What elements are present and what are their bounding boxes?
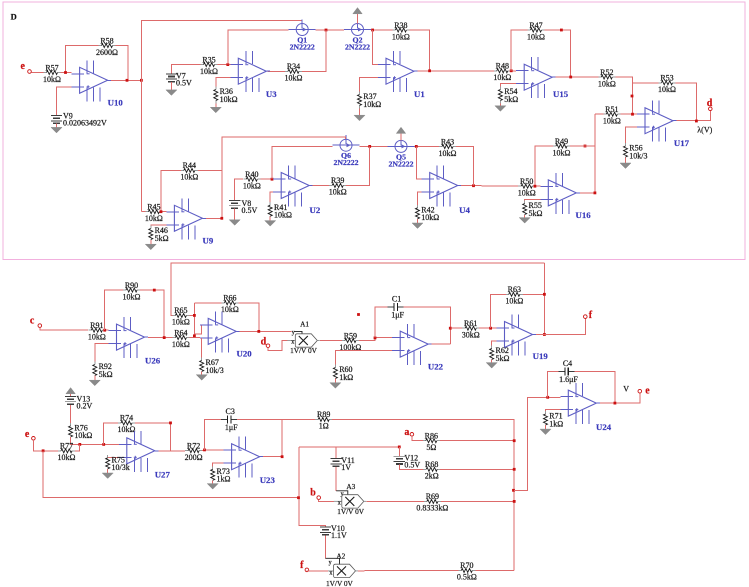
wire U20 output to A1 y-input [240, 330, 292, 332]
junction [631, 95, 634, 98]
resistor R61 [462, 319, 480, 340]
wire [189, 337, 200, 339]
resistor R69 [416, 492, 448, 513]
wire [359, 109, 361, 116]
junction [371, 29, 374, 32]
svg-text:10kΩ: 10kΩ [553, 148, 571, 157]
svg-text:1V/V 0V: 1V/V 0V [326, 579, 354, 587]
svg-text:R63: R63 [508, 285, 521, 294]
svg-text:C4: C4 [563, 359, 572, 368]
junction [594, 192, 597, 195]
junction [220, 217, 223, 220]
junction [78, 443, 81, 446]
svg-text:x: x [338, 501, 341, 507]
svg-text:10kΩ: 10kΩ [118, 425, 136, 434]
wire U4 output to R50 [461, 185, 519, 188]
wire Q6 to Q5 [360, 145, 388, 147]
op-amp U24 [560, 383, 611, 432]
svg-text:0.8333kΩ: 0.8333kΩ [416, 504, 448, 513]
svg-text:x: x [329, 570, 332, 576]
resistor R41 [268, 202, 292, 219]
svg-text:x: x [291, 340, 294, 346]
wire R89 line [282, 418, 315, 420]
svg-text:10kΩ: 10kΩ [200, 67, 218, 76]
svg-text:R58: R58 [100, 36, 113, 45]
capacitor C1 [388, 294, 405, 319]
ground [229, 220, 240, 226]
voltage source V7 [166, 72, 192, 88]
wire C4 feedback loop [548, 372, 559, 398]
wire top loop of lower section [171, 263, 544, 316]
svg-text:2N2222: 2N2222 [333, 158, 358, 167]
junction [695, 120, 698, 123]
resistor R46 [149, 226, 169, 243]
junction [103, 329, 106, 332]
voltage source V11 [331, 456, 355, 472]
multiplier A2 [326, 551, 358, 587]
svg-text:1.1V: 1.1V [331, 531, 347, 540]
svg-text:R39: R39 [331, 176, 344, 185]
svg-text:10kΩ: 10kΩ [172, 340, 190, 349]
resistor R67 [200, 358, 224, 375]
wire R54 to U15 +input [500, 84, 516, 87]
junction [489, 327, 492, 330]
resistor R77 [58, 442, 76, 463]
svg-text:1kΩ: 1kΩ [549, 419, 563, 428]
wire [33, 440, 58, 451]
wire [162, 211, 166, 213]
wire Q2 collector to VCC [357, 14, 359, 24]
svg-text:R68: R68 [425, 460, 438, 469]
junction [163, 336, 166, 339]
wire R63 feedback loop [491, 294, 506, 328]
wire [212, 480, 214, 483]
terminal d input [266, 344, 270, 348]
resistor R60 [333, 365, 353, 382]
svg-text:10kΩ: 10kΩ [74, 431, 92, 440]
junction [584, 145, 587, 148]
svg-text:U16: U16 [576, 210, 592, 220]
svg-text:a: a [404, 427, 409, 438]
wire Q1 to Q2 [316, 29, 344, 31]
wire [107, 469, 109, 473]
wire R43 to U4 output node [456, 147, 474, 186]
wire C1 feedback loop [375, 307, 388, 338]
terminal e input [28, 70, 32, 74]
junction [415, 145, 418, 148]
svg-text:R44: R44 [183, 161, 196, 170]
power arrow above Q2 [353, 8, 362, 14]
svg-text:10k/3: 10k/3 [206, 366, 224, 375]
ground [265, 221, 276, 227]
resistor R91 [88, 321, 106, 342]
wire R89 to ladder rail [332, 419, 514, 570]
wire [441, 500, 514, 502]
terminal f output [584, 315, 588, 319]
terminal c input [38, 324, 42, 328]
voltage source V8 [229, 199, 257, 215]
ground [102, 473, 113, 479]
resistor R65 [172, 306, 190, 327]
terminal b input [317, 496, 321, 500]
wire R61 line [451, 327, 463, 329]
op-amp U19 [497, 315, 549, 362]
wire [198, 169, 222, 171]
wire [524, 215, 526, 218]
wire R75 to U27 +input [108, 456, 119, 458]
resistor R50 [518, 177, 536, 198]
wire Q5 collector to VCC [400, 134, 402, 141]
wire [269, 216, 271, 220]
ground [166, 90, 177, 96]
wire U15 output to R52 [556, 76, 599, 78]
wire R77 to R76 node [75, 444, 80, 450]
junction [534, 185, 537, 188]
wire R62 to U19 +input [492, 341, 497, 349]
svg-text:R52: R52 [600, 68, 613, 77]
wire [620, 113, 637, 115]
junction [513, 468, 516, 471]
op-amp U17 [637, 101, 690, 148]
svg-text:5kΩ: 5kΩ [504, 95, 518, 104]
wire V9 to U10 +input [57, 87, 72, 116]
wire U23 output [263, 456, 282, 458]
wire R37 to U1 +input [360, 78, 379, 94]
svg-text:1kΩ: 1kΩ [217, 475, 231, 484]
wire R55 to U16 +input [525, 199, 541, 203]
multiplier A3 input leads [334, 491, 348, 507]
svg-text:R70: R70 [460, 561, 473, 570]
wire A3 output to R69 [366, 500, 424, 502]
svg-text:D: D [11, 12, 17, 22]
svg-text:10kΩ: 10kΩ [392, 32, 410, 41]
svg-text:d: d [261, 336, 267, 347]
svg-text:10kΩ: 10kΩ [43, 75, 61, 84]
wire long rail down from e node [43, 451, 298, 498]
resistor R40 [243, 170, 261, 191]
wire C3 feedback loop [205, 419, 222, 450]
wire [511, 70, 516, 72]
wire [625, 157, 627, 163]
wire R51 down to U16 output [594, 114, 596, 193]
svg-text:10kΩ: 10kΩ [527, 32, 545, 41]
wire R66 feedback vertical [193, 303, 195, 338]
svg-text:10kΩ: 10kΩ [421, 213, 439, 222]
capacitor C3 [221, 407, 238, 432]
resistor R55 [523, 201, 543, 218]
svg-text:U15: U15 [553, 89, 569, 99]
svg-text:10kΩ: 10kΩ [439, 149, 457, 158]
voltage source V12 [394, 454, 421, 470]
resistor R89 [315, 410, 332, 431]
svg-text:R65: R65 [174, 306, 187, 315]
svg-text:2N2222: 2N2222 [290, 43, 315, 52]
wire U9 output feedback rail to Q6 [203, 137, 345, 218]
resistor R76 [69, 423, 93, 440]
svg-text:1V: 1V [341, 463, 351, 472]
svg-text:R48: R48 [496, 62, 509, 71]
svg-text:10kΩ: 10kΩ [285, 74, 303, 83]
wire V12 to R68 [399, 465, 423, 470]
svg-text:1Ω: 1Ω [319, 422, 329, 431]
svg-text:R74: R74 [120, 414, 133, 423]
svg-text:U26: U26 [145, 356, 161, 366]
svg-text:5kΩ: 5kΩ [529, 209, 543, 218]
resistor R47 [527, 21, 545, 42]
resistor R53 [658, 74, 676, 95]
svg-text:R57: R57 [45, 63, 58, 72]
svg-text:R38: R38 [394, 21, 407, 30]
svg-text:R34: R34 [287, 62, 300, 71]
multiplier A2 input leads [325, 558, 339, 576]
resistor R39 [329, 176, 347, 197]
wire [71, 437, 119, 444]
svg-text:U9: U9 [203, 236, 214, 246]
junction [428, 69, 431, 72]
svg-text:5kΩ: 5kΩ [155, 234, 169, 243]
voltage source V13 [65, 394, 93, 410]
wire [491, 360, 493, 363]
op-amp U15 [516, 57, 569, 99]
wire [499, 104, 501, 106]
svg-text:10kΩ: 10kΩ [363, 100, 381, 109]
svg-text:1V/V 0V: 1V/V 0V [337, 507, 365, 516]
wire V13 to R76 [70, 405, 72, 426]
junction [193, 314, 196, 317]
multiplier A1 [290, 320, 320, 355]
junction [512, 489, 515, 492]
terminal a input [410, 433, 414, 437]
wire [105, 329, 108, 331]
junction [546, 396, 549, 399]
ground [540, 429, 551, 435]
junction [325, 29, 328, 32]
svg-text:0.02063492V: 0.02063492V [63, 119, 107, 128]
junction [42, 449, 45, 452]
junction [368, 145, 371, 148]
wire top loop right vertical [543, 263, 545, 335]
svg-text:R72: R72 [187, 442, 200, 451]
resistor R86 [423, 432, 440, 453]
junction [64, 71, 67, 74]
ground [210, 107, 221, 113]
wire U19 output to terminal f [536, 318, 585, 334]
junction [257, 330, 260, 333]
wire Q2 to R38 node [371, 29, 392, 31]
svg-text:R61: R61 [464, 319, 477, 328]
svg-text:0.5kΩ: 0.5kΩ [457, 573, 477, 582]
wire down to U1 -input [373, 30, 378, 65]
wire R49 to R50 node [535, 146, 553, 186]
wire [260, 178, 273, 180]
wire U10 output to top rail [141, 21, 302, 81]
svg-text:R47: R47 [529, 21, 542, 30]
svg-text:10kΩ: 10kΩ [58, 453, 76, 462]
resistor R45 [145, 203, 163, 224]
resistor R54 [498, 87, 518, 104]
wire [61, 72, 72, 74]
transistor Q5 2N2222 [388, 136, 415, 168]
junction [226, 63, 229, 66]
svg-text:1V/V 0V: 1V/V 0V [290, 346, 318, 355]
svg-text:0.5V: 0.5V [176, 79, 192, 88]
wire R67 below U20 +input [201, 338, 203, 361]
wire [170, 82, 172, 90]
svg-text:10kΩ: 10kΩ [603, 117, 621, 126]
svg-text:10kΩ: 10kΩ [658, 85, 676, 94]
wire U1 output to R48 [418, 70, 495, 72]
resistor R64 [172, 328, 190, 349]
wire [31, 72, 43, 74]
wire R73 to U23 +input [213, 463, 224, 469]
transistor Q2 2N2222 [344, 20, 371, 52]
junction [510, 69, 513, 72]
terminal e input lower [32, 437, 36, 441]
resistor R38 [392, 21, 410, 42]
resistor R72 [185, 442, 203, 463]
multiplier A3 [337, 482, 366, 516]
resistor R68 [423, 460, 440, 481]
ground [495, 106, 506, 112]
wire [40, 327, 88, 330]
svg-text:R77: R77 [60, 442, 73, 451]
junction [560, 29, 563, 32]
svg-text:C3: C3 [226, 407, 235, 416]
wire A2 output to R70 [358, 569, 458, 572]
resistor R37 [358, 92, 382, 109]
resistor R35 [200, 55, 218, 76]
svg-text:10kΩ: 10kΩ [88, 333, 106, 342]
svg-text:e: e [645, 386, 650, 397]
wire [440, 440, 514, 442]
svg-text:U22: U22 [428, 361, 444, 371]
ground [145, 244, 156, 250]
resistor R58 [96, 36, 118, 57]
wire R47 feedback loop [511, 30, 527, 71]
wire R60 to U22 +input [335, 351, 392, 367]
junction [543, 293, 546, 296]
svg-text:5Ω: 5Ω [426, 443, 436, 452]
wire R39 up to Q6-Q5 node [346, 146, 370, 185]
wire b hook to A3 x-input [319, 499, 334, 501]
svg-text:U2: U2 [310, 205, 321, 215]
junction [297, 496, 300, 499]
svg-text:A1: A1 [300, 320, 309, 329]
power arrow above Q5 [396, 127, 405, 133]
ground [486, 363, 497, 369]
svg-text:R89: R89 [317, 410, 330, 419]
op-amp U10 [72, 60, 124, 107]
svg-text:U1: U1 [414, 89, 425, 99]
wire [575, 372, 615, 404]
op-amp U9 [166, 198, 213, 245]
op-amp U4 [422, 166, 471, 215]
resistor R48 [493, 62, 511, 83]
ground [519, 218, 530, 224]
ground [196, 375, 207, 381]
resistor R63 [505, 285, 523, 306]
svg-text:U27: U27 [155, 469, 171, 479]
terminal d output [709, 107, 713, 111]
junction [472, 184, 475, 187]
wire [440, 468, 514, 470]
op-amp U3 [230, 51, 277, 99]
svg-text:10kΩ: 10kΩ [505, 297, 523, 306]
svg-text:1μF: 1μF [225, 423, 238, 432]
svg-text:10kΩ: 10kΩ [493, 73, 511, 82]
transistor Q6 2N2222 [333, 135, 360, 167]
svg-text:0.5V: 0.5V [404, 461, 420, 470]
wire U10 output down to U9 [140, 80, 142, 211]
svg-text:e: e [21, 61, 26, 72]
svg-text:10kΩ: 10kΩ [274, 211, 292, 220]
wire U26 output to R64 [148, 337, 172, 339]
svg-text:V: V [623, 385, 629, 394]
wire U24 output to terminal e [600, 393, 640, 403]
junction [569, 76, 572, 79]
svg-text:R69: R69 [426, 492, 439, 501]
wire R58 feedback loop [66, 46, 99, 73]
wire V11 to A3 y-input [335, 467, 337, 491]
wire [535, 185, 540, 187]
junction [513, 439, 516, 442]
ground [412, 223, 423, 229]
wire R45 line [141, 211, 145, 213]
wire [215, 104, 217, 108]
terminal f input lower [305, 568, 309, 572]
junction [153, 289, 156, 292]
wire R53 branch [633, 82, 659, 84]
op-amp U16 [540, 173, 591, 220]
wire U17 output to terminal d [677, 110, 711, 120]
svg-text:U3: U3 [266, 89, 277, 99]
wire U27 output to R72 [158, 450, 185, 452]
wire A1 output to R59 [320, 340, 342, 342]
voltage source V9 [51, 112, 107, 128]
power arrow [66, 388, 75, 394]
svg-text:A3: A3 [346, 482, 355, 491]
wire [202, 449, 224, 452]
wire d terminal hook to A1 x-input [268, 341, 287, 351]
svg-text:10kΩ: 10kΩ [172, 318, 190, 327]
ground [89, 380, 100, 386]
wire [218, 64, 231, 66]
capacitor C4 [559, 359, 579, 384]
wire R51 line [595, 113, 603, 115]
svg-text:1kΩ: 1kΩ [339, 373, 353, 382]
resistor R75 [106, 455, 130, 472]
wire R42 to U4 +input [418, 192, 422, 207]
op-amp U20 [200, 311, 252, 358]
svg-text:R66: R66 [223, 294, 236, 303]
svg-text:30kΩ: 30kΩ [462, 331, 480, 340]
resistor R59 [339, 331, 361, 352]
svg-text:2N2222: 2N2222 [388, 159, 413, 168]
svg-text:y: y [329, 560, 332, 566]
wire jog to U20 -input [194, 325, 208, 334]
resistor R42 [416, 205, 440, 222]
wire U2 output [312, 184, 329, 186]
resistor R52 [598, 68, 616, 89]
svg-text:10kΩ: 10kΩ [243, 182, 261, 191]
op-amp U23 [224, 437, 276, 485]
wire R92 to U26 +input [95, 344, 109, 365]
resistor R71 [544, 411, 564, 428]
resistor R43 [439, 137, 457, 158]
svg-text:U10: U10 [108, 98, 124, 108]
wire R34 up to Q1-Q2 node [302, 30, 326, 71]
resistor R36 [214, 87, 238, 104]
